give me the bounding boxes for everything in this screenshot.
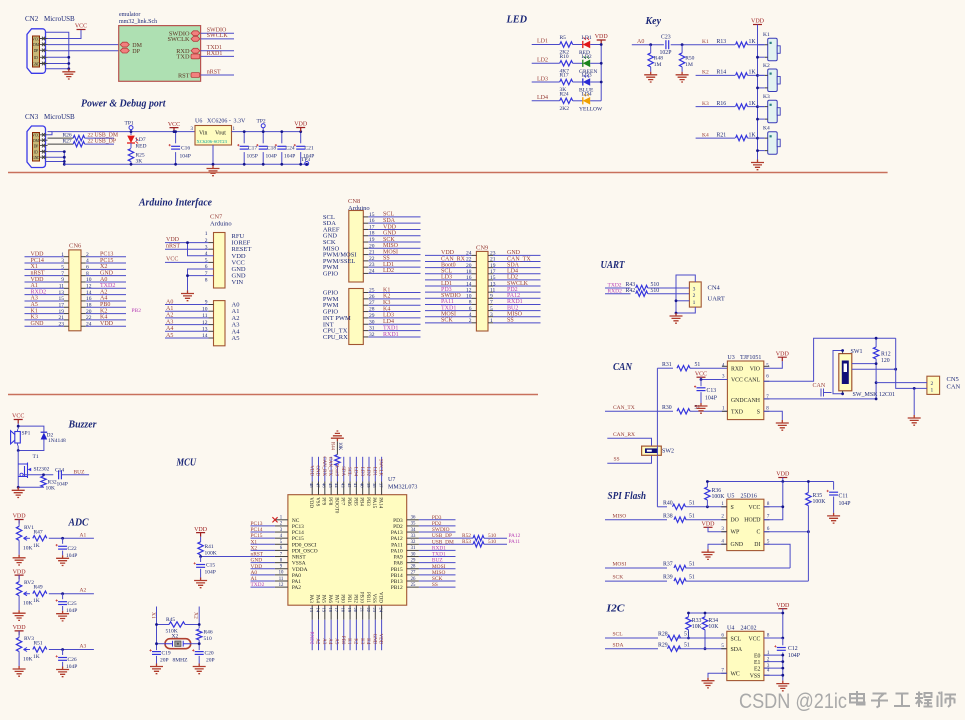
svg-text:R48: R48 xyxy=(654,56,663,62)
svg-text:15: 15 xyxy=(59,296,65,302)
svg-text:1K: 1K xyxy=(33,598,40,604)
CN6 pin 12 wire xyxy=(81,287,86,289)
U7 top pin 47 wire xyxy=(318,457,320,482)
svg-text:K3: K3 xyxy=(383,300,390,306)
svg-text:PD2: PD2 xyxy=(393,524,403,530)
resistor R44 10K xyxy=(335,455,340,466)
svg-text:CPU_RX: CPU_RX xyxy=(323,334,348,341)
svg-text:GND: GND xyxy=(100,270,114,276)
svg-text:CN2: CN2 xyxy=(25,15,39,23)
U7 top pin 44 wire xyxy=(336,466,338,482)
CN7 pin 3 wire xyxy=(165,248,209,250)
svg-text:PB6: PB6 xyxy=(346,497,351,506)
wire U3 CANL to bus xyxy=(764,338,896,381)
svg-text:X2: X2 xyxy=(193,612,199,619)
push button K4 xyxy=(768,132,778,155)
LED LD4 YELLOW xyxy=(582,97,584,104)
svg-text:48: 48 xyxy=(309,483,314,488)
svg-text:SCL: SCL xyxy=(441,269,452,275)
svg-text:LD3: LD3 xyxy=(441,275,452,281)
wire CAN vertical (RXD/SS bus) xyxy=(656,368,658,507)
ground (R50) xyxy=(676,72,689,82)
svg-text:GND: GND xyxy=(383,231,397,237)
svg-text:SI2302: SI2302 xyxy=(34,467,50,473)
svg-text:RXD1: RXD1 xyxy=(507,299,523,305)
svg-text:TJF1051: TJF1051 xyxy=(740,355,761,361)
CN7 pin 5 wire xyxy=(165,261,209,263)
resistor R25 3K xyxy=(130,143,132,148)
svg-text:28: 28 xyxy=(411,565,416,570)
CN7 pin 2 wire xyxy=(165,242,209,244)
CN9 pin 3 wire xyxy=(488,316,493,318)
wire R43 to CN4 pin3 xyxy=(648,287,690,289)
sheet pin SWCLK xyxy=(191,37,200,42)
svg-text:ADC: ADC xyxy=(68,517,89,529)
svg-text:DM: DM xyxy=(33,43,40,47)
wire R28 to U4 SCL xyxy=(677,637,727,639)
CN9 pin 24 wire xyxy=(425,254,471,256)
svg-text:PC15: PC15 xyxy=(100,258,113,264)
wire R21 to button xyxy=(748,137,765,139)
CN6 pin 18 wire xyxy=(81,306,86,308)
CN6 pin 2 wire xyxy=(81,256,86,258)
CN7 pin 11 wire xyxy=(165,317,209,319)
CN8 pin 17 wire xyxy=(363,228,368,230)
wire R31 to U3 RXD xyxy=(690,367,727,369)
svg-text:X1: X1 xyxy=(251,539,258,545)
svg-text:A4: A4 xyxy=(100,296,107,302)
svg-text:A3: A3 xyxy=(166,319,173,325)
svg-text:R46: R46 xyxy=(204,630,213,636)
svg-text:BU2: BU2 xyxy=(507,305,518,311)
U7 left pin 5 wire xyxy=(251,543,275,545)
svg-text:C19: C19 xyxy=(162,651,171,657)
U7 top pin 43 wire xyxy=(343,457,345,482)
wire TXD1 xyxy=(201,50,234,52)
svg-text:1: 1 xyxy=(490,318,493,324)
wire button K1 to bus xyxy=(758,56,765,58)
CN8 pin 20 wire xyxy=(363,247,368,249)
svg-text:nRST: nRST xyxy=(207,69,221,75)
svg-text:10K: 10K xyxy=(708,624,719,630)
wire LD4 row xyxy=(532,100,560,102)
svg-text:A5: A5 xyxy=(31,302,38,308)
svg-text:SS: SS xyxy=(507,318,514,324)
sheet pin DP xyxy=(120,48,129,53)
CN9 pin 13 wire xyxy=(488,285,493,287)
svg-text:A3: A3 xyxy=(31,296,38,302)
svg-text:K4: K4 xyxy=(702,132,709,138)
svg-text:PB3: PB3 xyxy=(365,497,370,506)
wire R42 to CN4 pin2 xyxy=(648,293,690,295)
wire K4 row xyxy=(696,137,735,139)
svg-text:LD2: LD2 xyxy=(582,54,592,60)
svg-text:19: 19 xyxy=(59,309,65,315)
svg-text:PC14: PC14 xyxy=(31,258,44,264)
svg-text:VDD: VDD xyxy=(31,277,45,283)
svg-text:A2: A2 xyxy=(166,313,173,319)
svg-text:GND: GND xyxy=(731,542,744,548)
svg-text:Boot0: Boot0 xyxy=(334,464,339,477)
svg-text:20: 20 xyxy=(466,263,472,269)
svg-text:DP: DP xyxy=(34,144,39,148)
U7 left pin 3 wire xyxy=(251,531,275,533)
svg-text:PA13: PA13 xyxy=(391,530,403,536)
CN9 pin 5 wire xyxy=(488,310,493,312)
wire R16 to button xyxy=(748,106,765,108)
svg-text:ID: ID xyxy=(34,56,38,60)
svg-text:TP2: TP2 xyxy=(257,119,266,125)
svg-text:SCL: SCL xyxy=(613,632,624,638)
CN9 pin 16 wire xyxy=(425,279,471,281)
wire SWDIO xyxy=(201,32,234,34)
svg-text:GND: GND xyxy=(32,62,40,66)
wire CN2 DP to emulator xyxy=(48,50,121,52)
svg-text:MicroUSB: MicroUSB xyxy=(44,15,75,23)
svg-text:SWCLK: SWCLK xyxy=(378,459,383,477)
svg-text:VDD: VDD xyxy=(166,237,180,243)
potentiometer RV3 10K xyxy=(18,631,20,638)
wire C23 to K1 xyxy=(671,44,735,46)
svg-text:MISO: MISO xyxy=(383,243,399,249)
svg-text:K3: K3 xyxy=(31,315,38,321)
U7 right pin 26 wire xyxy=(419,580,456,582)
svg-text:VDD: VDD xyxy=(441,250,455,256)
wire R37 to DI xyxy=(686,567,791,569)
svg-text:22: 22 xyxy=(88,139,94,145)
svg-text:A3: A3 xyxy=(321,638,326,645)
svg-text:SS: SS xyxy=(383,256,390,262)
svg-text:PA12: PA12 xyxy=(509,533,521,539)
wire I2C pull-up rail xyxy=(689,613,783,638)
svg-text:S: S xyxy=(731,505,734,511)
connector CN7 Arduino (analog part) xyxy=(214,301,226,346)
svg-text:E0: E0 xyxy=(754,653,761,659)
svg-text:SCK: SCK xyxy=(441,318,453,324)
svg-text:T1: T1 xyxy=(33,454,39,460)
svg-text:51: 51 xyxy=(689,575,695,581)
wire VCC to speaker/diode xyxy=(17,424,19,430)
svg-text:VCC: VCC xyxy=(748,636,760,642)
wire U3 pin5 VIO xyxy=(764,361,783,368)
wire U5 pin8 VCC to VDD xyxy=(764,482,783,507)
svg-text:TP1: TP1 xyxy=(125,121,134,127)
svg-text:GND: GND xyxy=(315,465,320,476)
wire GND rail (bottom) xyxy=(64,163,306,165)
svg-text:14: 14 xyxy=(202,333,208,339)
svg-text:10K: 10K xyxy=(23,601,33,607)
svg-text:Arduino Interface: Arduino Interface xyxy=(138,197,212,209)
U7 right pin 32 wire xyxy=(419,543,473,545)
svg-text:BUZ: BUZ xyxy=(432,558,443,564)
svg-text:PA4: PA4 xyxy=(314,594,319,603)
svg-text:Power & Debug port: Power & Debug port xyxy=(81,98,166,110)
U7 right pin 34 wire xyxy=(419,531,456,533)
svg-text:6: 6 xyxy=(469,306,472,312)
CN9 pin 1 wire xyxy=(488,322,493,324)
svg-text:BOOT0: BOOT0 xyxy=(333,497,338,514)
svg-text:MOSI: MOSI xyxy=(432,564,446,570)
svg-text:16: 16 xyxy=(466,275,472,281)
U7 left pin 4 wire xyxy=(251,537,275,539)
CN8 pin 23 wire xyxy=(363,266,368,268)
wire LD4 to VDD bus xyxy=(590,100,601,102)
svg-text:TXD2: TXD2 xyxy=(100,283,115,289)
svg-text:13: 13 xyxy=(309,608,314,613)
svg-text:21: 21 xyxy=(490,257,496,263)
svg-text:A3: A3 xyxy=(80,644,87,650)
svg-text:RXD1: RXD1 xyxy=(383,332,399,338)
wire LD1 row xyxy=(532,44,560,46)
resistor R35 100K xyxy=(806,493,811,506)
svg-text:11: 11 xyxy=(490,287,496,293)
svg-text:51: 51 xyxy=(684,642,690,648)
svg-text:WC: WC xyxy=(731,672,740,678)
svg-text:MOSI: MOSI xyxy=(383,249,398,255)
svg-text:34: 34 xyxy=(411,528,416,533)
svg-text:2: 2 xyxy=(931,381,934,387)
svg-text:20: 20 xyxy=(86,309,92,315)
ground (C20) xyxy=(193,664,206,674)
wire CN3 VCC rail xyxy=(48,131,53,133)
wire R29 to U4 SDA xyxy=(677,648,727,650)
wire R30 to U3 TXD xyxy=(690,410,727,412)
svg-text:19: 19 xyxy=(347,608,352,613)
svg-text:VCC: VCC xyxy=(695,371,707,377)
svg-text:PB15: PB15 xyxy=(391,567,403,573)
svg-text:PF7: PF7 xyxy=(340,497,345,506)
wire drain line xyxy=(17,451,19,488)
wire SS row to SW2 xyxy=(607,455,651,463)
svg-text:CSDN @21ic: CSDN @21ic xyxy=(739,689,847,713)
svg-text:10: 10 xyxy=(202,306,208,312)
svg-text:YELLOW: YELLOW xyxy=(579,106,603,112)
wire LD1 to VDD bus xyxy=(590,44,601,46)
svg-text:C20: C20 xyxy=(205,651,214,657)
svg-text:R24: R24 xyxy=(560,91,569,97)
svg-text:A4: A4 xyxy=(166,326,173,332)
svg-text:37: 37 xyxy=(378,483,383,488)
svg-text:CANH: CANH xyxy=(744,398,761,404)
svg-text:SW_MSK: SW_MSK xyxy=(853,392,879,398)
svg-text:VDD: VDD xyxy=(13,569,27,575)
svg-text:PA11: PA11 xyxy=(509,539,521,545)
U7 top pin 38 wire xyxy=(374,457,376,482)
svg-text:WP: WP xyxy=(731,530,740,536)
CN6 pin 3 wire xyxy=(25,262,65,264)
wire SCK row xyxy=(605,580,667,582)
svg-text:A0: A0 xyxy=(166,299,173,305)
svg-text:8MHZ: 8MHZ xyxy=(173,658,189,664)
svg-text:C16: C16 xyxy=(181,146,190,152)
svg-text:12: 12 xyxy=(86,284,92,290)
svg-text:PC15: PC15 xyxy=(251,533,263,539)
wire LD3 to VDD bus xyxy=(590,81,601,83)
wire R12 bottom to CANH rail xyxy=(875,359,877,399)
svg-text:16: 16 xyxy=(86,296,92,302)
svg-text:A2: A2 xyxy=(100,289,107,295)
CN9 pin 11 wire xyxy=(488,291,493,293)
svg-text:K4: K4 xyxy=(763,126,770,132)
svg-text:R17: R17 xyxy=(560,73,569,79)
wire CN4 pin1 xyxy=(676,300,689,302)
capacitor C25 104P xyxy=(62,594,64,600)
svg-text:PD2: PD2 xyxy=(432,521,442,527)
wire R36 top to VDD rail xyxy=(707,482,833,488)
CN8 pin 24 wire xyxy=(363,272,368,274)
U7 top pin 37 wire xyxy=(381,457,383,482)
svg-text:PA1: PA1 xyxy=(292,579,301,585)
ground (C19) xyxy=(150,664,163,674)
CN8 pin 15 wire xyxy=(363,216,368,218)
svg-text:CAN: CAN xyxy=(613,361,633,373)
CN6 pin 8 wire xyxy=(81,275,86,277)
ground (C22) xyxy=(56,555,69,565)
svg-text:RST: RST xyxy=(178,72,190,79)
resistor R49 1K xyxy=(28,593,30,595)
resistor R51 1K xyxy=(28,649,30,651)
svg-text:A5: A5 xyxy=(334,638,339,645)
svg-text:21: 21 xyxy=(359,608,364,613)
svg-text:VIN: VIN xyxy=(232,279,244,286)
resistor R52 510 xyxy=(473,536,484,541)
svg-text:1: 1 xyxy=(61,252,64,258)
wire button K4 to bus xyxy=(758,150,765,152)
svg-text:14: 14 xyxy=(466,281,472,287)
svg-text:K1: K1 xyxy=(763,32,770,38)
CN6 pin 1 wire xyxy=(25,256,65,258)
wire R52 to PA12 xyxy=(484,537,507,539)
CN8 pin 19 wire xyxy=(363,241,368,243)
svg-text:SS: SS xyxy=(614,457,620,463)
svg-text:R42: R42 xyxy=(626,288,636,294)
svg-text:PB5: PB5 xyxy=(352,497,357,506)
connector CN8 Arduino (lower) xyxy=(349,289,364,345)
speaker SP1 xyxy=(15,432,20,444)
svg-text:A5: A5 xyxy=(166,333,173,339)
resistor R24 2K2 xyxy=(560,98,573,103)
ground (buzzer) xyxy=(12,487,25,497)
svg-text:CN7: CN7 xyxy=(210,214,223,221)
svg-text:XC6206 -: XC6206 - xyxy=(207,119,231,125)
svg-text:S: S xyxy=(757,410,760,416)
svg-text:SDA: SDA xyxy=(340,466,345,476)
U7 bottom pin 21 wire xyxy=(362,605,364,620)
svg-text:R38: R38 xyxy=(663,513,673,519)
svg-text:C26: C26 xyxy=(68,657,77,663)
ground (C15) xyxy=(194,578,207,588)
svg-text:K3: K3 xyxy=(763,94,770,100)
svg-text:7: 7 xyxy=(490,300,493,306)
svg-text:K1: K1 xyxy=(702,39,709,45)
svg-text:LD2: LD2 xyxy=(365,467,370,477)
CN6 pin 19 wire xyxy=(25,313,65,315)
CN7 pin 13 wire xyxy=(165,330,209,332)
svg-text:17: 17 xyxy=(59,302,65,308)
CN6 pin 20 wire xyxy=(81,313,86,315)
CN8 pin 32 wire xyxy=(363,336,368,338)
svg-text:SCK: SCK xyxy=(613,575,624,581)
CN6 pin 4 wire xyxy=(81,262,86,264)
svg-text:emulator: emulator xyxy=(119,12,140,18)
svg-text:SCL: SCL xyxy=(731,636,742,642)
svg-text:LD1: LD1 xyxy=(383,262,394,268)
svg-text:LD4: LD4 xyxy=(582,91,592,97)
U7 top pin 41 wire xyxy=(355,457,357,482)
svg-text:9: 9 xyxy=(61,277,64,283)
svg-text:UART: UART xyxy=(601,259,626,271)
test point TP3 xyxy=(305,162,309,166)
wire CAN_RX row to SW2 xyxy=(607,438,651,446)
svg-text:A2: A2 xyxy=(315,638,320,645)
svg-text:104P: 104P xyxy=(788,653,800,659)
svg-text:GPIO: GPIO xyxy=(323,270,338,277)
svg-text:R13: R13 xyxy=(717,39,727,45)
CN8 pin 28 wire xyxy=(363,311,368,313)
svg-text:VDD: VDD xyxy=(378,634,383,645)
U7 bottom pin 17 wire xyxy=(336,605,338,620)
U7 right pin 35 wire xyxy=(419,525,456,527)
svg-text:25D16: 25D16 xyxy=(741,493,757,499)
svg-text:PF9: PF9 xyxy=(321,497,326,506)
svg-text:24C02: 24C02 xyxy=(741,625,757,631)
svg-text:R47: R47 xyxy=(34,529,43,535)
svg-text:33: 33 xyxy=(411,534,416,539)
svg-text:DO: DO xyxy=(731,518,739,524)
svg-text:LD2: LD2 xyxy=(537,58,548,64)
CN6 pin 15 wire xyxy=(25,300,65,302)
wire button K2 to bus xyxy=(758,87,765,89)
svg-text:VDD: VDD xyxy=(702,522,716,528)
wire TXD2 row xyxy=(605,287,631,289)
svg-text:8: 8 xyxy=(86,271,89,277)
CN7 pin 14 wire xyxy=(165,337,209,339)
svg-text:C24: C24 xyxy=(286,146,295,152)
svg-text:VDD: VDD xyxy=(776,603,790,609)
svg-text:X2: X2 xyxy=(100,264,107,270)
svg-text:A1: A1 xyxy=(31,283,38,289)
svg-text:VCC: VCC xyxy=(166,257,178,263)
ground (R44, flipped) xyxy=(331,431,344,441)
svg-text:41: 41 xyxy=(353,483,358,488)
svg-text:R26: R26 xyxy=(63,133,72,139)
CN9 pin 22 wire xyxy=(425,261,471,263)
svg-text:LD1: LD1 xyxy=(371,467,376,477)
svg-text:PB11: PB11 xyxy=(365,592,370,603)
svg-text:nRST: nRST xyxy=(251,552,264,558)
wire U6 GND pin2 xyxy=(212,145,214,164)
svg-text:LD1: LD1 xyxy=(582,35,592,41)
U7 left pin 8 wire xyxy=(251,562,275,564)
svg-text:R35: R35 xyxy=(813,493,823,499)
CN8 pin 27 wire xyxy=(363,304,368,306)
CN8 pin 25 wire xyxy=(363,292,368,294)
sheet pin RXD xyxy=(191,48,200,53)
svg-text:1K: 1K xyxy=(749,70,757,76)
svg-text:SWCLK: SWCLK xyxy=(507,281,529,287)
svg-text:K1: K1 xyxy=(383,287,390,293)
svg-text:51: 51 xyxy=(689,513,695,519)
svg-text:25: 25 xyxy=(411,583,416,588)
svg-text:Boot0: Boot0 xyxy=(441,262,456,268)
capacitor C21 104P xyxy=(300,132,302,144)
wire MISO row xyxy=(605,519,667,521)
svg-text:47: 47 xyxy=(315,483,320,488)
wire SW1 stub to CN5 pin1 branch xyxy=(852,368,896,370)
push button K3 xyxy=(768,100,778,123)
svg-text:MicroUSB: MicroUSB xyxy=(44,113,75,121)
svg-text:PA8: PA8 xyxy=(394,561,403,567)
